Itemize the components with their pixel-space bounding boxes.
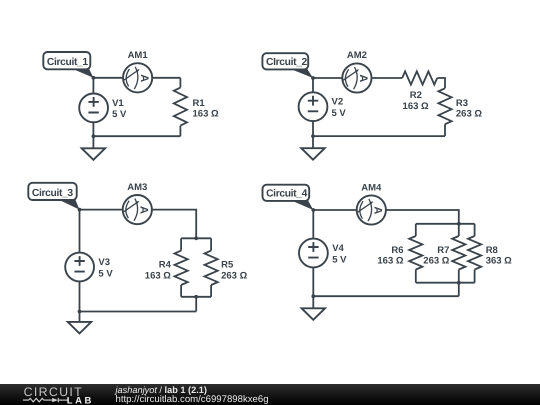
svg-text:163 Ω: 163 Ω <box>377 256 403 267</box>
wire C2 right rail bottom <box>444 124 446 136</box>
resistor R6 <box>409 236 422 270</box>
svg-text:Circuit_4: Circuit_4 <box>266 189 308 200</box>
wire C3 top: node to ammeter <box>80 209 123 211</box>
node C2 top junction <box>311 76 315 80</box>
svg-text:163 Ω: 163 Ω <box>193 109 219 120</box>
svg-text:AM4: AM4 <box>361 182 382 193</box>
node C3 bottom junction <box>78 310 82 314</box>
wire C3 ground stub <box>79 312 81 322</box>
ground C4 <box>302 308 325 320</box>
wire C1 top: ammeter to right rail <box>152 77 180 79</box>
svg-text:Circuit_3: Circuit_3 <box>32 188 74 199</box>
wire C4 bottom <box>313 295 459 297</box>
svg-text:A: A <box>138 206 150 214</box>
svg-text:A: A <box>357 74 369 82</box>
svg-text:V1: V1 <box>112 98 124 109</box>
wire C4 R8 top stub <box>474 224 476 236</box>
wire C3 left branch bottom stub <box>180 285 182 297</box>
wire C2: ammeter to R2 <box>372 77 403 79</box>
svg-text:AM3: AM3 <box>127 182 147 193</box>
ground C2 <box>301 148 324 160</box>
svg-text:Circuit_1: Circuit_1 <box>47 57 89 68</box>
svg-text:A: A <box>138 74 150 82</box>
node C2 bottom junction <box>311 134 315 138</box>
svg-text:R4: R4 <box>159 260 172 271</box>
svg-text:5 V: 5 V <box>332 108 347 119</box>
wire C4 top: ammeter to right corner, down <box>386 210 459 224</box>
footer url text <box>116 394 269 405</box>
node C4 parallel top junction <box>457 222 461 226</box>
resistor R4 <box>175 251 188 285</box>
resistor R3 <box>438 88 451 124</box>
ammeter AM4 <box>357 195 386 224</box>
wire C4 parallel top rail <box>416 223 475 225</box>
svg-text:5 V: 5 V <box>332 254 347 265</box>
wire C4 down from bottom rail <box>458 283 460 297</box>
wire C2 ground stub <box>312 136 314 148</box>
resistor R7 <box>452 236 465 270</box>
node C1 top junction <box>92 76 96 80</box>
wire C3 top: ammeter to right corner, down <box>152 210 196 239</box>
voltage source V2 <box>299 92 328 121</box>
wire C2 left rail <box>312 78 314 92</box>
wire C1 bottom <box>93 135 180 137</box>
svg-text:AM1: AM1 <box>128 50 149 61</box>
svg-text:363 Ω: 363 Ω <box>486 256 512 267</box>
voltage source V1 <box>79 94 108 123</box>
wire C4 R6 bottom stub <box>415 270 417 283</box>
node flag Circuit_1 <box>69 67 94 78</box>
svg-text:R3: R3 <box>456 98 468 109</box>
svg-text:AM2: AM2 <box>347 50 367 61</box>
voltage source V3 <box>65 253 94 282</box>
svg-text:V2: V2 <box>332 97 344 108</box>
wire C3 left rail <box>79 210 81 253</box>
wire C3 V3 bottom to node <box>79 281 81 311</box>
wire C4 R8 bottom stub <box>474 270 476 283</box>
footer title text <box>116 385 207 395</box>
svg-text:R8: R8 <box>486 245 498 256</box>
wire C4 left rail <box>312 210 314 239</box>
wire C1 left rail (node to V1 top) <box>92 78 94 94</box>
wire C4 R7 bottom stub <box>458 270 460 283</box>
ground C1 <box>82 148 105 160</box>
wire C3 parallel bottom rail <box>181 296 211 298</box>
footer bar <box>0 384 540 405</box>
svg-text:V3: V3 <box>98 257 110 268</box>
wire C4 R7 top stub <box>458 224 460 236</box>
svg-text:R6: R6 <box>391 245 403 256</box>
node flag Circuit_3 <box>55 198 79 210</box>
node C4 bottom junction <box>311 294 315 298</box>
ammeter AM2 <box>342 63 371 92</box>
wire C3 bottom <box>80 311 197 313</box>
svg-text:V4: V4 <box>332 243 344 254</box>
wire C1 right rail top <box>179 78 181 88</box>
svg-text:CIrcuit_2: CIrcuit_2 <box>266 57 308 68</box>
wire C4 ground stub <box>312 296 314 308</box>
wire C3 left branch top stub <box>180 238 182 250</box>
resistor R5 <box>205 251 218 285</box>
wire C1 top: node to ammeter <box>93 77 123 79</box>
wire C3 down from bottom rail <box>195 297 197 312</box>
svg-text:263 Ω: 263 Ω <box>456 109 482 120</box>
wire C3 parallel top rail <box>181 237 211 239</box>
wire C1 right rail bottom <box>179 126 181 137</box>
resistor R2 <box>402 71 437 84</box>
wire C4 parallel bottom rail <box>416 282 475 284</box>
svg-text:263 Ω: 263 Ω <box>221 270 247 281</box>
ammeter AM3 <box>123 195 152 224</box>
wire C2: R2 to corner, down to R3 <box>437 78 445 88</box>
node flag Circuit_4 <box>288 199 314 210</box>
node C3 parallel bottom junction <box>194 295 198 299</box>
wire C4 top: node to ammeter <box>313 209 356 211</box>
svg-text:R5: R5 <box>221 260 234 271</box>
CircuitLab logo <box>0 384 96 405</box>
svg-text:R7: R7 <box>437 245 449 256</box>
node C4 parallel bottom junction <box>457 281 461 285</box>
voltage source V4 <box>299 239 328 268</box>
resistor R8 <box>468 236 481 270</box>
node C1 bottom junction <box>92 134 96 138</box>
svg-text:163 Ω: 163 Ω <box>403 101 429 112</box>
node C3 parallel top junction <box>194 236 198 240</box>
svg-text:R1: R1 <box>193 98 206 109</box>
resistor R1 <box>174 88 187 126</box>
wire C2 top: node to ammeter <box>313 77 342 79</box>
svg-text:LAB: LAB <box>67 395 94 405</box>
node C3 top junction <box>78 208 82 212</box>
wire C3 right branch top stub <box>210 238 212 250</box>
svg-text:5 V: 5 V <box>98 268 113 279</box>
wire C4 R6 top stub <box>415 224 417 236</box>
svg-text:R2: R2 <box>410 90 422 101</box>
ammeter AM1 <box>123 63 152 92</box>
wire C3 right branch bottom stub <box>210 285 212 297</box>
wire C1 V1 bottom to bottom node <box>92 122 94 136</box>
svg-text:163 Ω: 163 Ω <box>145 270 171 281</box>
node C4 top junction <box>311 208 315 212</box>
svg-text:5 V: 5 V <box>112 109 127 120</box>
ground C3 <box>68 322 91 334</box>
wire C2 bottom <box>313 135 445 137</box>
wire C1 ground stub <box>92 136 94 148</box>
svg-text:A: A <box>372 206 384 214</box>
wire C2 V2 bottom to node <box>312 121 314 136</box>
node flag CIrcuit_2 <box>287 67 313 78</box>
wire C4 V4 bottom to node <box>312 267 314 296</box>
svg-text:263 Ω: 263 Ω <box>423 256 449 267</box>
